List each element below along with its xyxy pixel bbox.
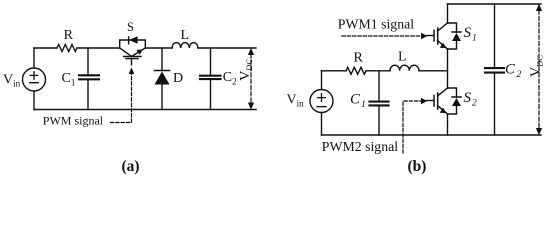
svg-text:S: S bbox=[127, 20, 134, 34]
body bar of S1 bbox=[437, 28, 439, 44]
svg-text:(b): (b) bbox=[408, 158, 427, 175]
wire: Vin branch below source (b) bbox=[321, 113, 323, 136]
gate stub of S bbox=[131, 59, 133, 65]
wire: middle wire, Vin corner to R bbox=[322, 70, 347, 72]
emitter arrowhead of S bbox=[136, 50, 142, 55]
PWM2 dashed gate arrow bbox=[403, 98, 427, 153]
diode loop bottom of S2 bbox=[448, 106, 457, 114]
wire: bottom rail (b) bbox=[322, 134, 542, 136]
diode loop of S bbox=[120, 40, 146, 48]
svg-text:L: L bbox=[398, 50, 407, 65]
wire: left branch below Vin bbox=[33, 91, 35, 110]
capacitor C1 (a) bbox=[79, 48, 99, 110]
svg-text:L: L bbox=[181, 28, 190, 43]
emitter arrowhead of S1 bbox=[440, 42, 447, 48]
wire: bridge rail, top rail to S1 collector bbox=[447, 4, 449, 23]
wire: middle wire, L to bridge midpoint bbox=[419, 70, 448, 72]
switch S with antiparallel diode bbox=[120, 36, 146, 65]
svg-text:R: R bbox=[64, 28, 74, 43]
capacitor C2 (a) bbox=[200, 48, 221, 110]
collector diagonal of S1 bbox=[438, 23, 448, 31]
diode triangle of S1 bbox=[452, 33, 461, 41]
diode D bbox=[155, 48, 170, 110]
body bar of S2 bbox=[437, 93, 439, 109]
diode cathode bar of S1 bbox=[452, 31, 461, 33]
IGBT switch S2 with antiparallel diode bbox=[427, 88, 461, 114]
wire: bridge rail, S2 emitter to bottom rail bbox=[447, 114, 449, 135]
diode loop top of S2 bbox=[448, 88, 457, 97]
gate bar of S1 bbox=[433, 31, 435, 42]
inductor L (b) bbox=[390, 65, 419, 71]
voltage source Vin (b) bbox=[310, 90, 333, 113]
gate lead of S1 bbox=[427, 35, 434, 37]
svg-text:PWM2 signal: PWM2 signal bbox=[322, 139, 398, 154]
emitter diagonal of S bbox=[132, 48, 146, 56]
gate bar of S2 bbox=[433, 96, 435, 107]
diode triangle of S bbox=[129, 36, 138, 44]
wire: top rail, switch S to L bbox=[145, 47, 172, 49]
wire: left branch above Vin bbox=[33, 48, 35, 68]
wire: top rail, Vin corner to R bbox=[34, 47, 57, 49]
diode loop bottom of S1 bbox=[448, 41, 457, 49]
Vdc measurement arrow (b) bbox=[536, 4, 542, 136]
wire: top rail (b) bbox=[448, 3, 542, 5]
wire: bottom rail (a) bbox=[34, 109, 256, 111]
emitter diagonal of S2 bbox=[438, 106, 448, 115]
PWM1 dashed gate arrow bbox=[342, 33, 427, 39]
IGBT switch S1 with antiparallel diode bbox=[427, 23, 461, 49]
collector diagonal of S2 bbox=[438, 88, 448, 96]
diode triangle of S2 bbox=[452, 98, 461, 106]
wire: top rail, L to right edge bbox=[198, 47, 256, 49]
diode loop top of S1 bbox=[448, 23, 457, 32]
resistor R (b) bbox=[346, 67, 366, 74]
wire: bridge rail, S1 emitter to S2 collector (midpoint node) bbox=[447, 49, 449, 88]
svg-text:R: R bbox=[354, 51, 364, 66]
collector diagonal of S bbox=[120, 48, 132, 56]
gate lead of S2 bbox=[427, 100, 434, 102]
voltage source Vin (a) bbox=[23, 68, 46, 91]
gate bar of S bbox=[126, 58, 138, 60]
wire: Vin branch above source (b) bbox=[321, 71, 323, 90]
diode cathode bar of S bbox=[128, 37, 130, 44]
wire: top rail, R to switch S bbox=[77, 47, 120, 49]
emitter diagonal of S1 bbox=[438, 41, 448, 50]
channel bar of S bbox=[124, 56, 141, 58]
svg-text:(a): (a) bbox=[122, 158, 140, 175]
Vdc measurement arrow (a) bbox=[248, 48, 254, 110]
wire: middle wire, R to L bbox=[366, 70, 390, 72]
emitter arrowhead of S2 bbox=[440, 108, 447, 114]
svg-text:D: D bbox=[173, 71, 183, 86]
diode cathode bar of S2 bbox=[452, 96, 461, 98]
inductor L (a) bbox=[172, 43, 198, 48]
capacitor C1 (b) bbox=[370, 71, 389, 135]
capacitor C2 (b) bbox=[485, 4, 504, 135]
svg-text:PWM1 signal: PWM1 signal bbox=[338, 17, 414, 32]
resistor R (a) bbox=[57, 45, 77, 52]
svg-text:PWM signal: PWM signal bbox=[43, 113, 104, 127]
PWM signal dashed gate arrow (a) bbox=[111, 67, 135, 122]
